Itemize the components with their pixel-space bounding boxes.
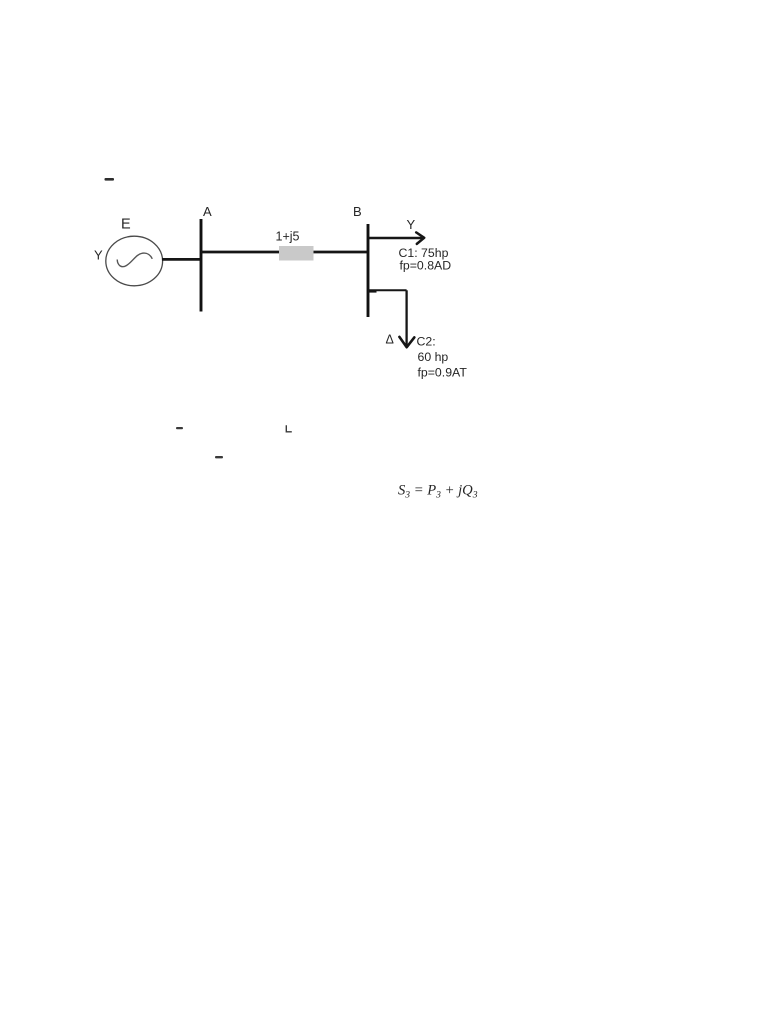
svg-text:B: B	[353, 204, 362, 219]
svg-text:Δ: Δ	[386, 333, 394, 347]
load C2 arrowhead (down)	[399, 337, 414, 347]
junction tick at bus B branch	[368, 290, 377, 293]
svg-text:E: E	[121, 216, 131, 232]
wire: bus B branch to load C2 (horizontal)	[368, 289, 407, 291]
stray dash mark mid-left	[176, 427, 183, 429]
wire: load C2 drop (vertical)	[405, 290, 407, 345]
svg-text:S3 = P3 + jQ3: S3 = P3 + jQ3	[398, 483, 478, 501]
sine wave inside source	[117, 253, 152, 267]
wire: source to bus A	[162, 258, 202, 261]
load C1 arrow shaft	[369, 237, 422, 240]
svg-text:C2:: C2:	[417, 335, 436, 349]
svg-text:fp=0.8AD: fp=0.8AD	[400, 259, 452, 273]
svg-text:1+j5: 1+j5	[276, 230, 300, 244]
svg-text:60 hp: 60 hp	[418, 350, 449, 364]
svg-text:Y: Y	[407, 217, 416, 232]
generator source E	[106, 236, 163, 286]
bus B	[367, 224, 370, 317]
svg-text:Y: Y	[94, 248, 103, 263]
line impedance block	[279, 246, 314, 261]
load C1 arrowhead	[416, 232, 424, 244]
wire: bus A to bus B (transmission line)	[201, 251, 368, 254]
stray L mark	[286, 425, 292, 432]
svg-text:fp=0.9AT: fp=0.9AT	[418, 365, 468, 379]
svg-text:A: A	[203, 204, 212, 219]
stray dash mark top-left	[105, 178, 115, 181]
bus A	[200, 219, 203, 312]
stray dash mark lower	[215, 456, 223, 458]
